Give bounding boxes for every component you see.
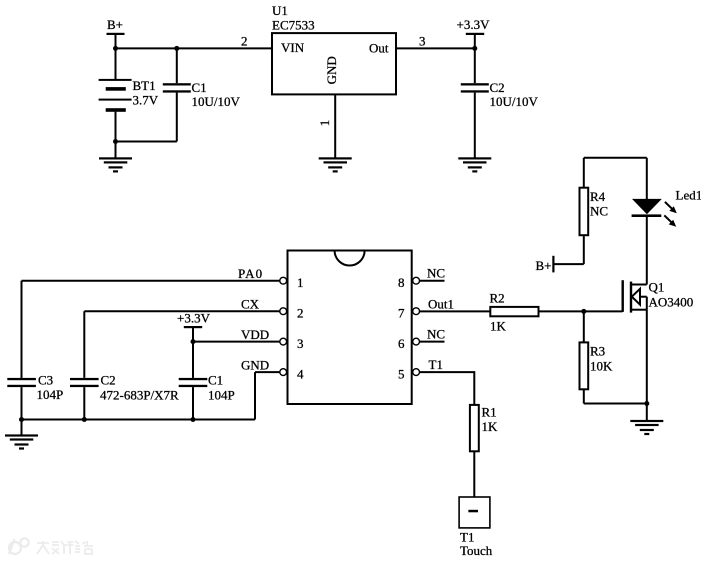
svg-text:+3.3V: +3.3V (457, 17, 491, 32)
wire R2 to gate (539, 310, 623, 312)
wire NC stub pin8 (420, 280, 445, 282)
pin 1 circle (280, 277, 287, 284)
touch pad T1 (459, 497, 493, 558)
svg-text:GND: GND (324, 56, 339, 84)
svg-text:10K: 10K (590, 359, 613, 374)
pin 5 circle (413, 369, 420, 376)
node VDD (191, 339, 196, 344)
svg-text:T1: T1 (429, 357, 443, 372)
node C1 rail (191, 417, 196, 422)
svg-text:AO3400: AO3400 (649, 295, 694, 310)
wire PA0 pin1 (22, 280, 281, 282)
resistor R1 1K (470, 405, 498, 498)
ground (battery) (99, 157, 132, 172)
svg-text:VIN: VIN (281, 40, 305, 55)
svg-text:472-683P/X7R: 472-683P/X7R (100, 388, 179, 403)
svg-text:CX: CX (241, 297, 260, 312)
wire CX pin2 (84, 310, 280, 312)
wire top rail R4 to LED (584, 157, 647, 159)
capacitor C1 10U/10V (top) (163, 48, 241, 141)
svg-text:PA0: PA0 (238, 266, 263, 281)
pin 1 (U1 GND) wire (334, 94, 336, 158)
svg-text:Out: Out (369, 41, 389, 56)
wire battery bottom to ground node (115, 112, 117, 159)
svg-text:3: 3 (297, 336, 304, 351)
node +3.3V (472, 46, 477, 51)
svg-text:10U/10V: 10U/10V (490, 94, 539, 109)
svg-text:1K: 1K (482, 419, 499, 434)
svg-text:5: 5 (398, 367, 405, 382)
svg-text:1: 1 (297, 275, 304, 290)
power +3.3V (VDD) (177, 311, 211, 342)
node at C1 top (174, 46, 179, 51)
svg-text:NC: NC (590, 203, 608, 218)
wire GND down to rail (254, 372, 256, 419)
svg-text:2: 2 (297, 306, 304, 321)
svg-text:8: 8 (398, 275, 405, 290)
node C2 rail (82, 417, 87, 422)
capacitor C2 472-683P/X7R (70, 373, 179, 420)
svg-text:2: 2 (241, 34, 248, 49)
svg-text:1K: 1K (490, 319, 507, 334)
wire PA0 down to C3 (21, 281, 23, 378)
svg-text:Out1: Out1 (428, 296, 454, 311)
op-amp U1 EC7533 regulator (272, 3, 396, 94)
wire rail down to ground (21, 420, 23, 436)
wire bottom ground rail (22, 419, 256, 421)
svg-text:7: 7 (398, 306, 405, 321)
svg-text:C3: C3 (38, 373, 53, 388)
svg-text:+3.3V: +3.3V (177, 311, 211, 326)
wire T1 pin5 (420, 372, 475, 405)
ground (bottom right) (630, 420, 663, 435)
pin 6 circle (413, 338, 420, 345)
wire source down to ground rail (646, 310, 648, 404)
svg-text:B+: B+ (536, 258, 552, 273)
wire drain up to LED (646, 217, 648, 285)
ground (C2) (458, 157, 491, 172)
svg-text:NC: NC (427, 266, 445, 281)
wire R4 bottom to B+ (553, 263, 583, 265)
wire LED anode down (646, 158, 648, 200)
svg-text:EC7533: EC7533 (272, 18, 315, 33)
node battery/C1 bottom (113, 139, 118, 144)
pin 7 circle (413, 308, 420, 315)
node ground rail right (644, 401, 649, 406)
wire B+ down to battery (115, 35, 117, 80)
pin 4 circle (280, 369, 287, 376)
power B+ (near R4) (536, 256, 555, 273)
watermark text (37, 541, 93, 554)
pin 3 circle (280, 338, 287, 345)
svg-text:Touch: Touch (460, 543, 493, 558)
power B+ (top left) (107, 17, 125, 35)
svg-text:R3: R3 (590, 344, 605, 359)
svg-text:R1: R1 (482, 405, 497, 420)
svg-text:C2: C2 (101, 373, 116, 388)
svg-text:104P: 104P (37, 387, 64, 402)
transistor Q1 AO3400 mosfet (622, 280, 694, 313)
capacitor C3 104P (7, 373, 63, 420)
svg-text:3.7V: 3.7V (133, 93, 159, 108)
wire NC stub pin6 (420, 341, 445, 343)
svg-text:6: 6 (398, 336, 405, 351)
svg-text:GND: GND (241, 358, 269, 373)
wire Out1 pin7 to R2 (420, 310, 491, 312)
svg-text:1: 1 (317, 120, 332, 127)
wire VDD pin3 (193, 341, 280, 343)
wire U1 Out to +3.3V node (396, 47, 475, 49)
svg-text:NC: NC (427, 326, 445, 341)
svg-text:R2: R2 (490, 291, 505, 306)
svg-text:Led1: Led1 (676, 188, 701, 203)
node C3 rail (19, 417, 24, 422)
svg-text:VDD: VDD (241, 327, 269, 342)
node at B+ / main rail (113, 46, 118, 51)
wire node to ground (646, 404, 648, 422)
power +3.3V (top) (457, 17, 491, 48)
wire VDD down to C1 (192, 342, 194, 378)
svg-text:BT1: BT1 (133, 78, 156, 93)
svg-text:3: 3 (419, 34, 426, 49)
battery BT1 3.7V (99, 78, 159, 112)
svg-text:104P: 104P (208, 388, 235, 403)
svg-text:U1: U1 (272, 3, 288, 18)
svg-text:C1: C1 (208, 373, 223, 388)
wire main rail B+ to U1 VIN (116, 47, 273, 49)
svg-text:C1: C1 (192, 80, 207, 95)
wire GND pin4 (255, 371, 280, 373)
resistor R4 NC (580, 158, 609, 264)
ground (bottom left) (5, 434, 38, 449)
pin 8 circle (413, 277, 420, 284)
capacitor C1 104P (bottom) (179, 373, 235, 420)
svg-text:B+: B+ (107, 17, 123, 32)
ic U2 8-pin touch controller (288, 251, 412, 405)
node gate/R3 (581, 309, 586, 314)
svg-text:10U/10V: 10U/10V (192, 94, 241, 109)
svg-text:Q1: Q1 (649, 280, 665, 295)
wire CX down to C2 (83, 311, 85, 378)
ground (U1 GND) (319, 157, 352, 172)
watermark logo (9, 538, 29, 554)
svg-text:4: 4 (297, 367, 304, 382)
wire R3 bottom to mosfet source (584, 403, 647, 405)
LED Led1 (632, 188, 701, 227)
wire C1 bottom to battery bottom (116, 141, 177, 143)
svg-text:R4: R4 (590, 189, 606, 204)
resistor R2 1K (490, 291, 539, 334)
svg-text:C2: C2 (490, 80, 505, 95)
capacitor C2 10U/10V (top right) (461, 48, 539, 158)
pin 2 circle (280, 308, 287, 315)
resistor R3 10K (580, 311, 614, 403)
